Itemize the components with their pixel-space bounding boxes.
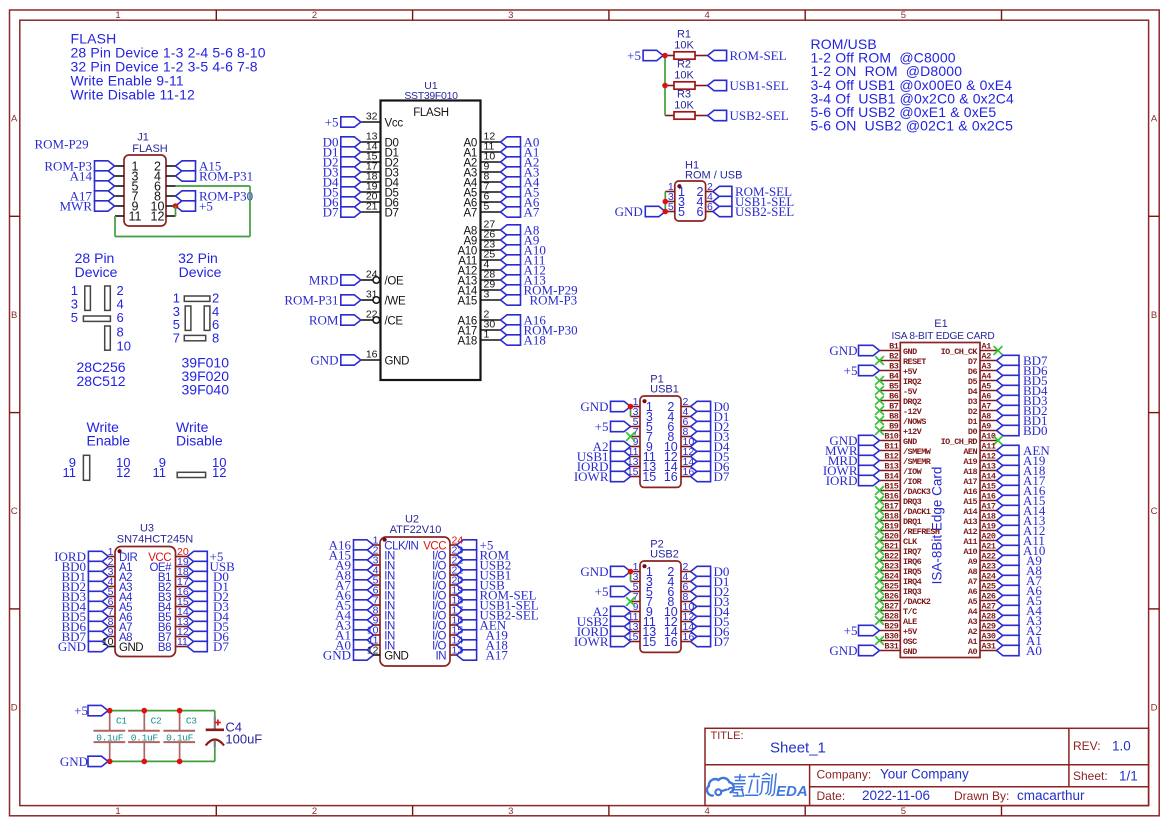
svg-text:A22: A22 xyxy=(982,552,996,562)
svg-text:GND: GND xyxy=(903,647,917,657)
svg-text:J1: J1 xyxy=(137,132,149,144)
svg-text:A18: A18 xyxy=(982,512,996,522)
svg-text:GND: GND xyxy=(580,564,608,579)
svg-text:11: 11 xyxy=(177,636,188,648)
U2 pin 14 I/O with net flag A18 xyxy=(432,638,508,653)
ground flag GND at caps xyxy=(60,754,108,769)
svg-text:31: 31 xyxy=(366,289,378,301)
net flag ROM-SEL at H1 xyxy=(713,184,792,199)
svg-text:A3: A3 xyxy=(968,617,978,627)
svg-text:D1: D1 xyxy=(968,417,978,427)
J1 left pin wire and net flag ROM-P3 xyxy=(44,159,124,174)
U3 pin 2 A1 with net flag BD0 xyxy=(61,559,132,574)
svg-text:A0: A0 xyxy=(1026,643,1042,658)
svg-text:16: 16 xyxy=(683,631,695,643)
net flag USB2 at P2 xyxy=(577,614,631,629)
svg-text:16: 16 xyxy=(664,635,678,649)
U3 pin 1 DIR with net flag IORD xyxy=(54,549,137,564)
U1 pin 30 A17 with net flag ROM-P30 xyxy=(457,319,577,338)
U3 pin 9 A8 with net flag BD7 xyxy=(61,629,132,644)
svg-text:B4: B4 xyxy=(889,372,899,382)
svg-text:B23: B23 xyxy=(884,562,898,572)
junction at R2 xyxy=(662,83,668,89)
svg-text:A17: A17 xyxy=(963,477,977,487)
E1 pin A23 A8 with net flag A8 xyxy=(968,562,1042,579)
svg-text:A5: A5 xyxy=(982,382,992,392)
U1 pin 22 /CE with net flag ROM xyxy=(309,309,404,328)
svg-text:B13: B13 xyxy=(884,462,898,472)
E1 pin B13 /IOW with net flag IOWR xyxy=(823,462,923,479)
svg-text:/NOWS: /NOWS xyxy=(903,417,926,427)
E1 pin A6 D3 with net flag BD3 xyxy=(968,392,1048,409)
svg-text:A4: A4 xyxy=(968,607,978,617)
E1 pin B22 IRQ6 no-connect xyxy=(875,552,922,567)
E1 pin A19 A12 with net flag A12 xyxy=(963,522,1045,539)
E1 pin B23 IRQ5 no-connect xyxy=(875,562,922,577)
svg-text:0.1uF: 0.1uF xyxy=(166,732,194,743)
svg-text:cmacarthur: cmacarthur xyxy=(1017,788,1085,803)
svg-text:A7: A7 xyxy=(524,205,540,220)
U2 pin 9 IN with net flag A3 xyxy=(335,618,395,633)
svg-text:IRQ2: IRQ2 xyxy=(903,377,922,387)
U3 pin 12 B7 with net flag D6 xyxy=(158,629,229,644)
U1 pin 18 D4 with net flag D4 xyxy=(323,171,400,190)
svg-text:D7: D7 xyxy=(385,208,399,220)
svg-text:FLASH: FLASH xyxy=(413,107,449,119)
svg-text:B16: B16 xyxy=(884,492,898,502)
resistor R2 10K xyxy=(665,59,708,90)
connector P2 USB2 2x8 header xyxy=(640,539,681,653)
svg-text:A6: A6 xyxy=(968,587,978,597)
jumper diagram: write enable 9-11 xyxy=(63,419,131,480)
svg-text:Device: Device xyxy=(179,264,222,280)
svg-text:B: B xyxy=(11,310,17,321)
J1 left pin wire and net flag A17 xyxy=(70,189,124,204)
E1 pin A29 A2 with net flag A2 xyxy=(968,622,1042,639)
svg-text:B22: B22 xyxy=(884,552,898,562)
svg-text:A21: A21 xyxy=(982,542,996,552)
svg-text:IO_CH_CK: IO_CH_CK xyxy=(941,347,979,357)
U1 pin 21 D7 with net flag D7 xyxy=(323,201,399,220)
svg-text:GND: GND xyxy=(323,648,351,663)
svg-text:ATF22V10: ATF22V10 xyxy=(390,524,442,536)
E1 pin B10 GND with net flag GND xyxy=(829,432,917,449)
svg-text:A16: A16 xyxy=(963,487,977,497)
net label ROM-P29 (floating) xyxy=(35,137,89,152)
svg-text:B2: B2 xyxy=(889,352,899,362)
svg-text:6: 6 xyxy=(117,310,124,325)
svg-text:D6: D6 xyxy=(968,367,978,377)
svg-text:5: 5 xyxy=(901,806,906,817)
svg-text:B25: B25 xyxy=(884,582,898,592)
U1 pin 16 GND with net flag GND xyxy=(310,349,409,368)
svg-text:A18: A18 xyxy=(457,336,477,348)
svg-text:28C512: 28C512 xyxy=(77,373,126,389)
U1 pin 10 A2 with net flag A2 xyxy=(464,151,540,170)
svg-text:+5: +5 xyxy=(595,419,609,434)
U2 pin 24 VCC with net flag +5 xyxy=(423,538,493,553)
U1 pin 1 A18 with net flag A18 xyxy=(457,329,545,348)
U3 pin 15 B4 with net flag D3 xyxy=(158,599,229,614)
svg-text:B9: B9 xyxy=(889,422,899,432)
svg-text:A15: A15 xyxy=(963,497,977,507)
svg-text:ISA-8Bit Edge Card: ISA-8Bit Edge Card xyxy=(930,467,945,585)
svg-text:15: 15 xyxy=(627,466,639,478)
U3 pin 7 A6 with net flag BD5 xyxy=(61,609,132,624)
svg-text:GND: GND xyxy=(903,347,917,357)
ground flag GND at P1 xyxy=(580,399,630,414)
svg-text:A6: A6 xyxy=(982,392,992,402)
svg-text:5: 5 xyxy=(484,201,490,213)
svg-text:2: 2 xyxy=(312,806,317,817)
svg-text:/IOW: /IOW xyxy=(903,467,923,477)
U2 pin 4 IN with net flag A8 xyxy=(335,568,395,583)
svg-text:B28: B28 xyxy=(884,612,898,622)
U1 pin 32 Vcc with net flag +5 xyxy=(325,111,404,130)
svg-text:A28: A28 xyxy=(982,612,996,622)
svg-text:USB2: USB2 xyxy=(650,549,679,561)
text note: FLASH jumper settings xyxy=(71,31,266,103)
svg-text:A: A xyxy=(1151,114,1158,125)
net flag D4 at P1 xyxy=(691,439,730,454)
net flag D5 at P1 xyxy=(691,449,730,464)
E1 pin A28 A3 with net flag A3 xyxy=(968,612,1042,629)
no-connect X at P2 pin 7 xyxy=(626,597,635,606)
U2 pin 11 IN with net flag A0 xyxy=(335,638,395,653)
svg-text:A11: A11 xyxy=(982,442,996,452)
net flag D0 at P2 xyxy=(691,564,730,579)
svg-text:B15: B15 xyxy=(884,482,898,492)
svg-text:ROM: ROM xyxy=(309,313,339,328)
E1 pin A22 A9 with net flag A9 xyxy=(968,552,1042,569)
P2 pin wires and pin numbers xyxy=(627,561,695,643)
E1 pin A4 D5 with net flag BD5 xyxy=(968,372,1048,389)
svg-text:1: 1 xyxy=(115,806,120,817)
svg-text:B30: B30 xyxy=(884,632,898,642)
wire H1 pins 1-3-5 (green) xyxy=(664,192,666,212)
svg-text:3: 3 xyxy=(508,806,513,817)
E1 pin B12 /SMEMR with net flag MRD xyxy=(828,452,932,469)
svg-text:D0: D0 xyxy=(968,427,978,437)
E1 pin A12 A19 with net flag A19 xyxy=(963,452,1045,469)
svg-text:GND: GND xyxy=(119,642,143,654)
svg-text:RESET: RESET xyxy=(903,357,926,367)
svg-text:A2: A2 xyxy=(982,352,992,362)
ground flag GND at P2 xyxy=(580,564,630,579)
svg-text:IRQ5: IRQ5 xyxy=(903,567,922,577)
svg-text:/SMEMR: /SMEMR xyxy=(903,457,932,467)
svg-text:A13: A13 xyxy=(982,462,996,472)
U2 pin 18 I/O with net flag USB1-SEL xyxy=(432,598,539,613)
svg-text:Disable: Disable xyxy=(176,433,223,449)
svg-text:GND: GND xyxy=(58,639,86,654)
svg-text:Device: Device xyxy=(75,264,118,280)
svg-text:A18: A18 xyxy=(963,467,977,477)
svg-text:ALE: ALE xyxy=(903,617,917,627)
U3 pin 4 A3 with net flag BD2 xyxy=(61,579,132,594)
svg-text:A8: A8 xyxy=(982,412,992,422)
svg-text:A12: A12 xyxy=(982,452,996,462)
svg-text:IRQ7: IRQ7 xyxy=(903,547,922,557)
title block xyxy=(705,728,1149,805)
net flag USB1-SEL at H1 xyxy=(713,194,794,209)
svg-text:D4: D4 xyxy=(968,387,978,397)
U1 pin 20 D6 with net flag D6 xyxy=(323,191,399,210)
svg-text:D7: D7 xyxy=(213,639,229,654)
svg-text:T/C: T/C xyxy=(903,607,917,617)
E1 pin A9 D0 with net flag BD0 xyxy=(968,422,1048,439)
JLCEDA logo xyxy=(707,773,808,800)
svg-text:D7: D7 xyxy=(323,205,339,220)
svg-text:5: 5 xyxy=(901,10,906,21)
svg-text:/REFRESH: /REFRESH xyxy=(903,527,940,537)
net flag D6 at P2 xyxy=(691,624,730,639)
svg-text:+5: +5 xyxy=(325,115,339,130)
net flag IOWR at P2 xyxy=(574,634,631,649)
U1 pin 6 A6 with net flag A6 xyxy=(464,191,540,210)
svg-text:B8: B8 xyxy=(158,642,171,654)
svg-text:B21: B21 xyxy=(884,542,898,552)
wire +5 rail (green) xyxy=(108,710,215,712)
svg-text:D: D xyxy=(1151,702,1158,713)
U3 pin 11 B8 with net flag D7 xyxy=(158,639,229,654)
net flag D4 at P2 xyxy=(691,604,730,619)
svg-text:A16: A16 xyxy=(982,492,996,502)
svg-text:A23: A23 xyxy=(982,562,996,572)
svg-text:Drawn By:: Drawn By: xyxy=(954,789,1009,803)
svg-text:5-6 ON USB2 @02C1 & 0x2C5: 5-6 ON USB2 @02C1 & 0x2C5 xyxy=(811,118,1014,134)
net flag D5 at P2 xyxy=(691,614,730,629)
junction at R1 xyxy=(662,53,668,59)
U2 pin 12 GND with net flag GND xyxy=(323,648,409,663)
svg-text:A0: A0 xyxy=(968,647,978,657)
svg-text:A20: A20 xyxy=(982,532,996,542)
junction at J1 pin 10 xyxy=(173,203,179,209)
U2 pin 21 I/O with net flag USB1 xyxy=(432,568,511,583)
svg-text:1/1: 1/1 xyxy=(1119,769,1138,784)
svg-text:+5: +5 xyxy=(74,703,88,718)
svg-text:A15: A15 xyxy=(982,482,996,492)
U1 pin 8 A4 with net flag A4 xyxy=(464,171,540,190)
svg-text:GND: GND xyxy=(310,353,338,368)
svg-text:12: 12 xyxy=(367,645,379,657)
J1 right pin net flag A15 xyxy=(166,159,221,174)
E1 pin A16 A15 with net flag A15 xyxy=(963,492,1045,509)
svg-text:TITLE:: TITLE: xyxy=(711,730,744,742)
power flag +5 at R1 xyxy=(627,48,663,63)
jumper diagram: write disable 11-12 xyxy=(153,419,227,480)
svg-text:DRQ3: DRQ3 xyxy=(903,497,922,507)
svg-text:IN: IN xyxy=(436,651,447,663)
U1 pin 7 A5 with net flag A5 xyxy=(464,181,540,200)
svg-text:Your Company: Your Company xyxy=(880,766,969,781)
power flag +5 at P1 xyxy=(595,419,631,434)
E1 pin A13 A18 with net flag A18 xyxy=(963,462,1045,479)
E1 pin B2 RESET no-connect xyxy=(875,352,926,367)
svg-text:24: 24 xyxy=(366,269,378,281)
svg-text:B6: B6 xyxy=(889,392,899,402)
svg-text:A8: A8 xyxy=(968,567,978,577)
U3 pin 8 A7 with net flag BD6 xyxy=(61,619,132,634)
U1 pin 25 A11 with net flag A11 xyxy=(458,249,545,268)
svg-text:B7: B7 xyxy=(889,402,899,412)
E1 pin A11 AEN with net flag AEN xyxy=(963,442,1050,459)
svg-text:SST39F010: SST39F010 xyxy=(404,90,458,102)
U1 pin 17 D3 with net flag D3 xyxy=(323,161,399,180)
svg-text:10K: 10K xyxy=(674,39,694,51)
E1 pin B14 /IOR with net flag IORD xyxy=(826,472,923,489)
svg-text:A15: A15 xyxy=(457,296,477,308)
svg-text:D5: D5 xyxy=(968,377,978,387)
svg-text:BD0: BD0 xyxy=(1023,423,1048,438)
E1 pin A15 A16 with net flag A16 xyxy=(963,482,1046,499)
U3 pin 17 B2 with net flag D1 xyxy=(158,579,229,594)
E1 pin A10 IO_CH_RD no-connect xyxy=(941,432,1003,447)
svg-text:A25: A25 xyxy=(982,582,996,592)
net flag IOWR at P1 xyxy=(574,469,631,484)
svg-text:Sheet_1: Sheet_1 xyxy=(770,740,826,757)
svg-text:100uF: 100uF xyxy=(225,732,262,747)
U1 pin 13 D0 with net flag D0 xyxy=(323,131,399,150)
U1 pin 19 D5 with net flag D5 xyxy=(323,181,399,200)
U1 pin 26 A9 with net flag A9 xyxy=(464,229,540,248)
E1 pin B28 ALE no-connect xyxy=(875,612,917,627)
svg-text:ROM / USB: ROM / USB xyxy=(685,170,742,182)
svg-text:IOWR: IOWR xyxy=(574,469,609,484)
svg-text:CLK: CLK xyxy=(903,537,918,547)
svg-text:IO_CH_RD: IO_CH_RD xyxy=(941,437,978,447)
J1 pin 12 wire xyxy=(166,206,176,216)
svg-text:USB1-SEL: USB1-SEL xyxy=(730,78,789,93)
net flag IORD at P2 xyxy=(577,624,631,639)
svg-text:IRQ4: IRQ4 xyxy=(903,577,922,587)
capacitor C3 0.1uF xyxy=(163,711,197,762)
E1 pin A27 A4 with net flag A4 xyxy=(968,602,1042,619)
svg-text:A9: A9 xyxy=(982,422,992,432)
svg-text:A5: A5 xyxy=(968,597,978,607)
svg-text:A17: A17 xyxy=(486,648,509,663)
E1 pin A18 A13 with net flag A13 xyxy=(963,512,1045,529)
svg-text:/WE: /WE xyxy=(385,296,406,308)
text note: 28C256 28C512 xyxy=(77,359,126,389)
U3 pin 5 A4 with net flag BD3 xyxy=(61,589,133,604)
IC U2 ATF22V10 body xyxy=(380,514,450,667)
U3 pin 6 A5 with net flag BD4 xyxy=(61,599,132,614)
svg-text:B18: B18 xyxy=(884,512,898,522)
J1 pin 10 power flag +5 xyxy=(166,199,213,214)
svg-text:D2: D2 xyxy=(968,407,978,417)
svg-text:USB2-SEL: USB2-SEL xyxy=(735,204,794,219)
svg-text:1: 1 xyxy=(115,10,120,21)
svg-text:Company:: Company: xyxy=(817,767,872,781)
U3 pin 13 B6 with net flag D5 xyxy=(158,619,229,634)
U2 pin 13 IN with net flag A17 xyxy=(436,648,509,663)
E1 pin B25 IRQ3 no-connect xyxy=(875,582,922,597)
E1 pin B31 GND with net flag GND xyxy=(829,642,917,659)
svg-text:/OE: /OE xyxy=(385,276,405,288)
svg-text:MWR: MWR xyxy=(60,199,93,214)
svg-text:10: 10 xyxy=(117,338,131,353)
svg-text:+12V: +12V xyxy=(903,427,923,437)
svg-text:IRQ3: IRQ3 xyxy=(903,587,922,597)
U3 pin 18 B1 with net flag D0 xyxy=(158,569,229,584)
svg-text:IRQ6: IRQ6 xyxy=(903,557,922,567)
svg-text:GND: GND xyxy=(580,399,608,414)
svg-text:A12: A12 xyxy=(963,527,977,537)
svg-text:-5V: -5V xyxy=(903,387,918,397)
svg-text:D: D xyxy=(11,702,18,713)
E1 pin B17 /DACK1 no-connect xyxy=(875,502,931,517)
U2 pin 6 IN with net flag A6 xyxy=(335,588,395,603)
power flag +5 at P2 xyxy=(595,584,631,599)
net flag D0 at P1 xyxy=(691,399,730,414)
U2 pin 17 I/O with net flag USB2-SEL xyxy=(432,608,539,623)
svg-text:A1: A1 xyxy=(982,342,992,352)
U2 pin 7 IN with net flag A5 xyxy=(335,598,395,613)
svg-text:A7: A7 xyxy=(464,208,477,220)
svg-text:8: 8 xyxy=(212,331,219,346)
junction at P1 pin 1 xyxy=(628,404,634,410)
svg-text:12: 12 xyxy=(116,465,130,480)
net flag USB1-SEL xyxy=(708,78,789,93)
net flag D2 at P1 xyxy=(691,419,730,434)
junction C1 top xyxy=(107,708,113,714)
svg-text:15: 15 xyxy=(642,635,656,649)
J1 pin 11 wire xyxy=(115,215,124,217)
E1 pin A20 A11 with net flag A11 xyxy=(963,532,1045,549)
capacitor C4 100uF polarized xyxy=(206,711,263,762)
E1 pin B3 +5V with net flag +5 xyxy=(844,362,918,379)
E1 pin B26 /DACK2 no-connect xyxy=(875,592,931,607)
E1 pin A24 A7 with net flag A7 xyxy=(968,572,1042,589)
E1 pin B19 /REFRESH no-connect xyxy=(875,522,940,537)
svg-text:FLASH: FLASH xyxy=(132,143,168,155)
svg-text:12: 12 xyxy=(151,210,165,224)
svg-text:B5: B5 xyxy=(889,382,899,392)
E1 pin B7 -12V no-connect xyxy=(875,402,923,417)
U1 pin 2 A16 with net flag A16 xyxy=(457,309,546,328)
svg-text:/DACK1: /DACK1 xyxy=(903,507,931,517)
svg-text:DRQ1: DRQ1 xyxy=(903,517,922,527)
U1 pin 27 A8 with net flag A8 xyxy=(464,219,540,238)
svg-text:ISA 8-BIT EDGE CARD: ISA 8-BIT EDGE CARD xyxy=(891,331,994,342)
power flag +5 at caps xyxy=(74,703,108,718)
svg-text:B11: B11 xyxy=(884,442,898,452)
ground flag GND at H1 xyxy=(615,204,666,219)
svg-text:A18: A18 xyxy=(524,333,546,348)
U1 pin 5 A7 with net flag A7 xyxy=(464,201,540,220)
svg-text:Date:: Date: xyxy=(817,789,846,803)
junction at P2 pin 1 xyxy=(628,569,634,575)
svg-text:A14: A14 xyxy=(982,472,996,482)
svg-text:A14: A14 xyxy=(963,507,977,517)
svg-text:2022-11-06: 2022-11-06 xyxy=(862,788,930,803)
svg-text:3: 3 xyxy=(508,10,513,21)
svg-text:A: A xyxy=(11,114,18,125)
svg-text:GND: GND xyxy=(829,643,857,658)
svg-text:A10: A10 xyxy=(963,547,977,557)
svg-text:A19: A19 xyxy=(982,522,996,532)
wire GND rail (green) xyxy=(108,760,215,762)
U2 pin 19 I/O with net flag ROM-SEL xyxy=(432,588,536,603)
svg-text:15: 15 xyxy=(627,631,639,643)
svg-text:A27: A27 xyxy=(982,602,996,612)
svg-text:+5V: +5V xyxy=(903,367,918,377)
svg-text:GND: GND xyxy=(903,437,917,447)
U1 pin 11 A1 with net flag A1 xyxy=(464,141,540,160)
svg-text:+5: +5 xyxy=(844,363,858,378)
U1 pin 15 D2 with net flag D2 xyxy=(323,151,399,170)
